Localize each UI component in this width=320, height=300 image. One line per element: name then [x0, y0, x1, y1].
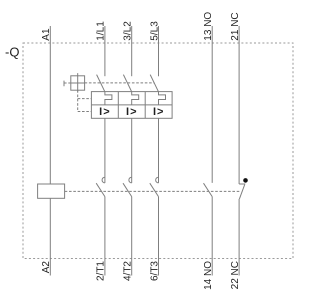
svg-text:3/L2: 3/L2 [123, 21, 134, 41]
svg-text:22 NC: 22 NC [230, 261, 241, 289]
svg-text:A2: A2 [41, 261, 52, 274]
svg-text:2/T1: 2/T1 [96, 261, 107, 281]
svg-text:13 NO: 13 NO [203, 12, 214, 41]
svg-text:I>: I> [126, 106, 137, 118]
svg-text:5/L3: 5/L3 [149, 21, 160, 41]
svg-text:I>: I> [99, 106, 110, 118]
svg-text:1/L1: 1/L1 [96, 21, 107, 41]
svg-text:14 NO: 14 NO [203, 261, 214, 290]
svg-text:A1: A1 [41, 28, 52, 41]
svg-text:4/T2: 4/T2 [123, 261, 134, 281]
svg-text:I>: I> [153, 106, 164, 118]
svg-text:-Q: -Q [5, 45, 19, 60]
svg-text:6/T3: 6/T3 [149, 261, 160, 281]
svg-text:21 NC: 21 NC [230, 12, 241, 40]
